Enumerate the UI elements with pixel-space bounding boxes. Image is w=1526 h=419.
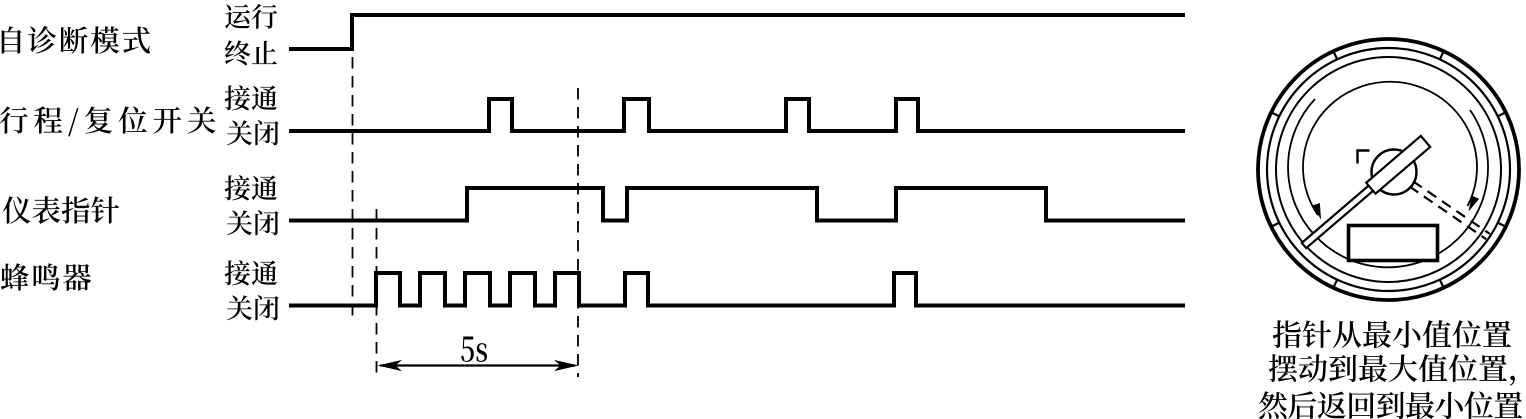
dashed guide line x=352 (start of self-diagnosis) [352, 57, 354, 322]
waveform: 仪表指针 (meter pointer) [291, 188, 1183, 221]
waveform: 蜂鸣器 (buzzer pulses) [291, 273, 1183, 306]
state label: 接通 (row4) [225, 260, 278, 285]
state label: 关闭 (row2) [227, 120, 279, 145]
pointer swing arc (min<->max) [1303, 82, 1477, 215]
gauge outer rim circle [1258, 39, 1519, 300]
caption line 2: 摆动到最大值位置， [1269, 354, 1515, 386]
label: 5s [461, 337, 487, 362]
state label: 终止 [225, 40, 277, 65]
state label: 运行 [225, 4, 277, 29]
waveform: 行程/复位开关 (switch pulses) [291, 99, 1183, 131]
pointer needle shaft [1302, 168, 1394, 248]
state label: 关闭 (row3) [227, 210, 279, 235]
dashed needle outline (pointer at other position) [1410, 181, 1490, 239]
gauge bezel ring 3 [1276, 57, 1501, 282]
gauge dial face arc (open at top) [1288, 99, 1488, 267]
label: 仪表指针 [3, 196, 119, 224]
dashed guide line x=578 (5s interval end) [577, 88, 579, 377]
swing arc arrowhead (right, max position) [1469, 195, 1480, 211]
pointer hub circle [1372, 150, 1417, 195]
swing arc arrowhead (left, min position) [1312, 203, 1321, 220]
gauge bezel ring 2 [1267, 48, 1510, 291]
dashed guide line x=376 (buzzer start / 5s interval begin) [376, 209, 378, 377]
5s dimension arrow (double-headed) [378, 360, 579, 371]
caption line 3: 然后返回到最小位置 [1259, 391, 1522, 419]
label: 行程/复位开关 [0, 106, 216, 136]
gauge rim notch ticks [1270, 50, 1506, 288]
caption line 1: 指针从最小值位置 [1273, 320, 1511, 348]
pointer needle head [1366, 136, 1430, 194]
gauge display window rectangle [1349, 226, 1438, 261]
state label: 接通 (row3) [225, 175, 278, 200]
waveform: 自诊断模式 (run/stop) [291, 15, 1183, 49]
min position bracket mark [1358, 151, 1370, 164]
label: 自诊断模式 [2, 26, 150, 54]
state label: 关闭 (row4) [227, 295, 279, 320]
label: 蜂鸣器 [1, 263, 91, 291]
state label: 接通 (row2) [225, 85, 278, 110]
